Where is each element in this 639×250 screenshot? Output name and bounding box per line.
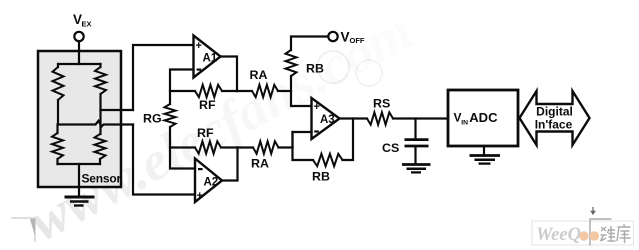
- CS ground: [402, 163, 431, 166]
- wire RS to ADC: [393, 117, 448, 119]
- weeqoo watermark box: [532, 221, 634, 245]
- svg-text:A3: A3: [320, 114, 335, 126]
- sensor ground: [65, 196, 95, 199]
- wire Voff to RB: [291, 37, 328, 51]
- svg-text:OFF: OFF: [350, 36, 365, 45]
- wire RB bottom to A3 output: [343, 119, 354, 161]
- ADC U1 box: [448, 90, 518, 146]
- op-amp A1: [194, 36, 221, 78]
- bridge top bar: [58, 63, 101, 65]
- bridge resistor R2 (top-right): [99, 64, 101, 67]
- resistor RA (bottom): [238, 146, 254, 148]
- svg-text:RB: RB: [312, 170, 330, 184]
- sensor box: [38, 51, 121, 187]
- weeqoo corner lines: [590, 219, 612, 246]
- wire Vex to box: [78, 41, 80, 64]
- bridge resistor R4 (bottom-right): [95, 134, 106, 159]
- bridge right leg wire: [99, 94, 101, 134]
- capacitor CS: [414, 119, 416, 139]
- ADC ground: [483, 146, 485, 155]
- wire A2 inverting input: [170, 127, 195, 169]
- wire bridge right node to A1+: [133, 45, 194, 110]
- svg-text:Digital: Digital: [536, 105, 573, 119]
- wire A3 output: [340, 117, 368, 119]
- wire RB to summing node and A3+: [291, 76, 312, 106]
- svg-text:+: +: [197, 190, 203, 202]
- wire bridge left node to A2+: [133, 125, 195, 195]
- svg-text:A2: A2: [204, 177, 219, 189]
- watermark ring 2: [356, 60, 382, 86]
- weeqoo down arrow: [592, 207, 594, 212]
- svg-text:RA: RA: [250, 68, 268, 82]
- wire RA bottom to A3-: [293, 132, 312, 148]
- digital interface arrow: [520, 91, 590, 145]
- svg-text:RF: RF: [197, 126, 214, 140]
- resistor RF (top): [170, 90, 195, 92]
- bridge bottom bar: [58, 163, 101, 165]
- resistor RF (bottom): [170, 146, 195, 148]
- wire A1 inverting input: [170, 70, 194, 105]
- op-amp A2: [195, 159, 222, 203]
- svg-text:In'face: In'face: [535, 118, 573, 132]
- svg-text:RS: RS: [373, 97, 390, 111]
- svg-text:+: +: [314, 101, 320, 113]
- svg-text:CS: CS: [382, 141, 399, 155]
- svg-text:EX: EX: [82, 20, 92, 29]
- bridge resistor R1 (top-left): [57, 64, 59, 67]
- corner watermark mark: [11, 218, 35, 242]
- svg-text:RB: RB: [306, 62, 324, 76]
- watermark ring 1: [317, 51, 349, 83]
- svg-text:Sensor: Sensor: [82, 172, 122, 186]
- resistor RS: [367, 112, 393, 124]
- bridge mid bar with hop over right leg: [58, 121, 133, 127]
- wire A3- node down to RB: [293, 132, 314, 160]
- svg-text:IN: IN: [461, 119, 468, 126]
- bridge resistor R3 (bottom-left): [56, 125, 58, 134]
- wire A1 output: [221, 57, 238, 92]
- resistor RB (bottom): [313, 154, 343, 166]
- svg-text:ADC: ADC: [469, 110, 498, 125]
- resistor RG: [165, 104, 176, 127]
- svg-text:WeeQ: WeeQ: [536, 224, 581, 245]
- svg-text:V: V: [341, 30, 350, 45]
- svg-text:A1: A1: [203, 53, 218, 65]
- weiku text: [601, 224, 631, 243]
- svg-text:+: +: [196, 40, 202, 52]
- resistor RA (top): [237, 90, 252, 92]
- wire A2 output: [222, 148, 238, 181]
- svg-text:RA: RA: [251, 157, 269, 171]
- resistor RB (top): [286, 50, 297, 76]
- Vex terminal: [74, 32, 83, 41]
- op-amp A3: [312, 98, 340, 139]
- svg-text:RF: RF: [199, 98, 216, 112]
- svg-text:RG: RG: [143, 112, 162, 126]
- wire bottom bar to ground: [78, 164, 80, 196]
- bridge tap wire (right node): [101, 109, 134, 111]
- Voff terminal: [328, 32, 337, 41]
